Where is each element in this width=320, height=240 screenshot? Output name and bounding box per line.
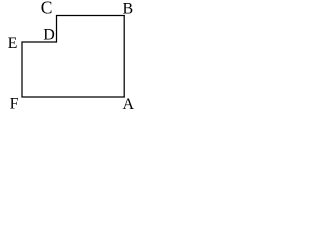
wire: segment DE (notch horizontal) [22, 41, 58, 43]
svg-text:A: A [123, 96, 135, 113]
wire: segment CB (top edge) [56, 15, 125, 17]
wire: segment BA (right edge) [123, 15, 125, 98]
wire: segment CD (notch vertical) [56, 15, 58, 43]
svg-text:B: B [123, 0, 134, 17]
wire: segment FA (bottom edge) [22, 96, 125, 98]
svg-text:C: C [41, 0, 53, 18]
wire: segment EF (left edge) [21, 42, 23, 98]
svg-text:F: F [10, 96, 19, 113]
svg-text:D: D [43, 26, 55, 43]
svg-text:E: E [8, 35, 18, 52]
